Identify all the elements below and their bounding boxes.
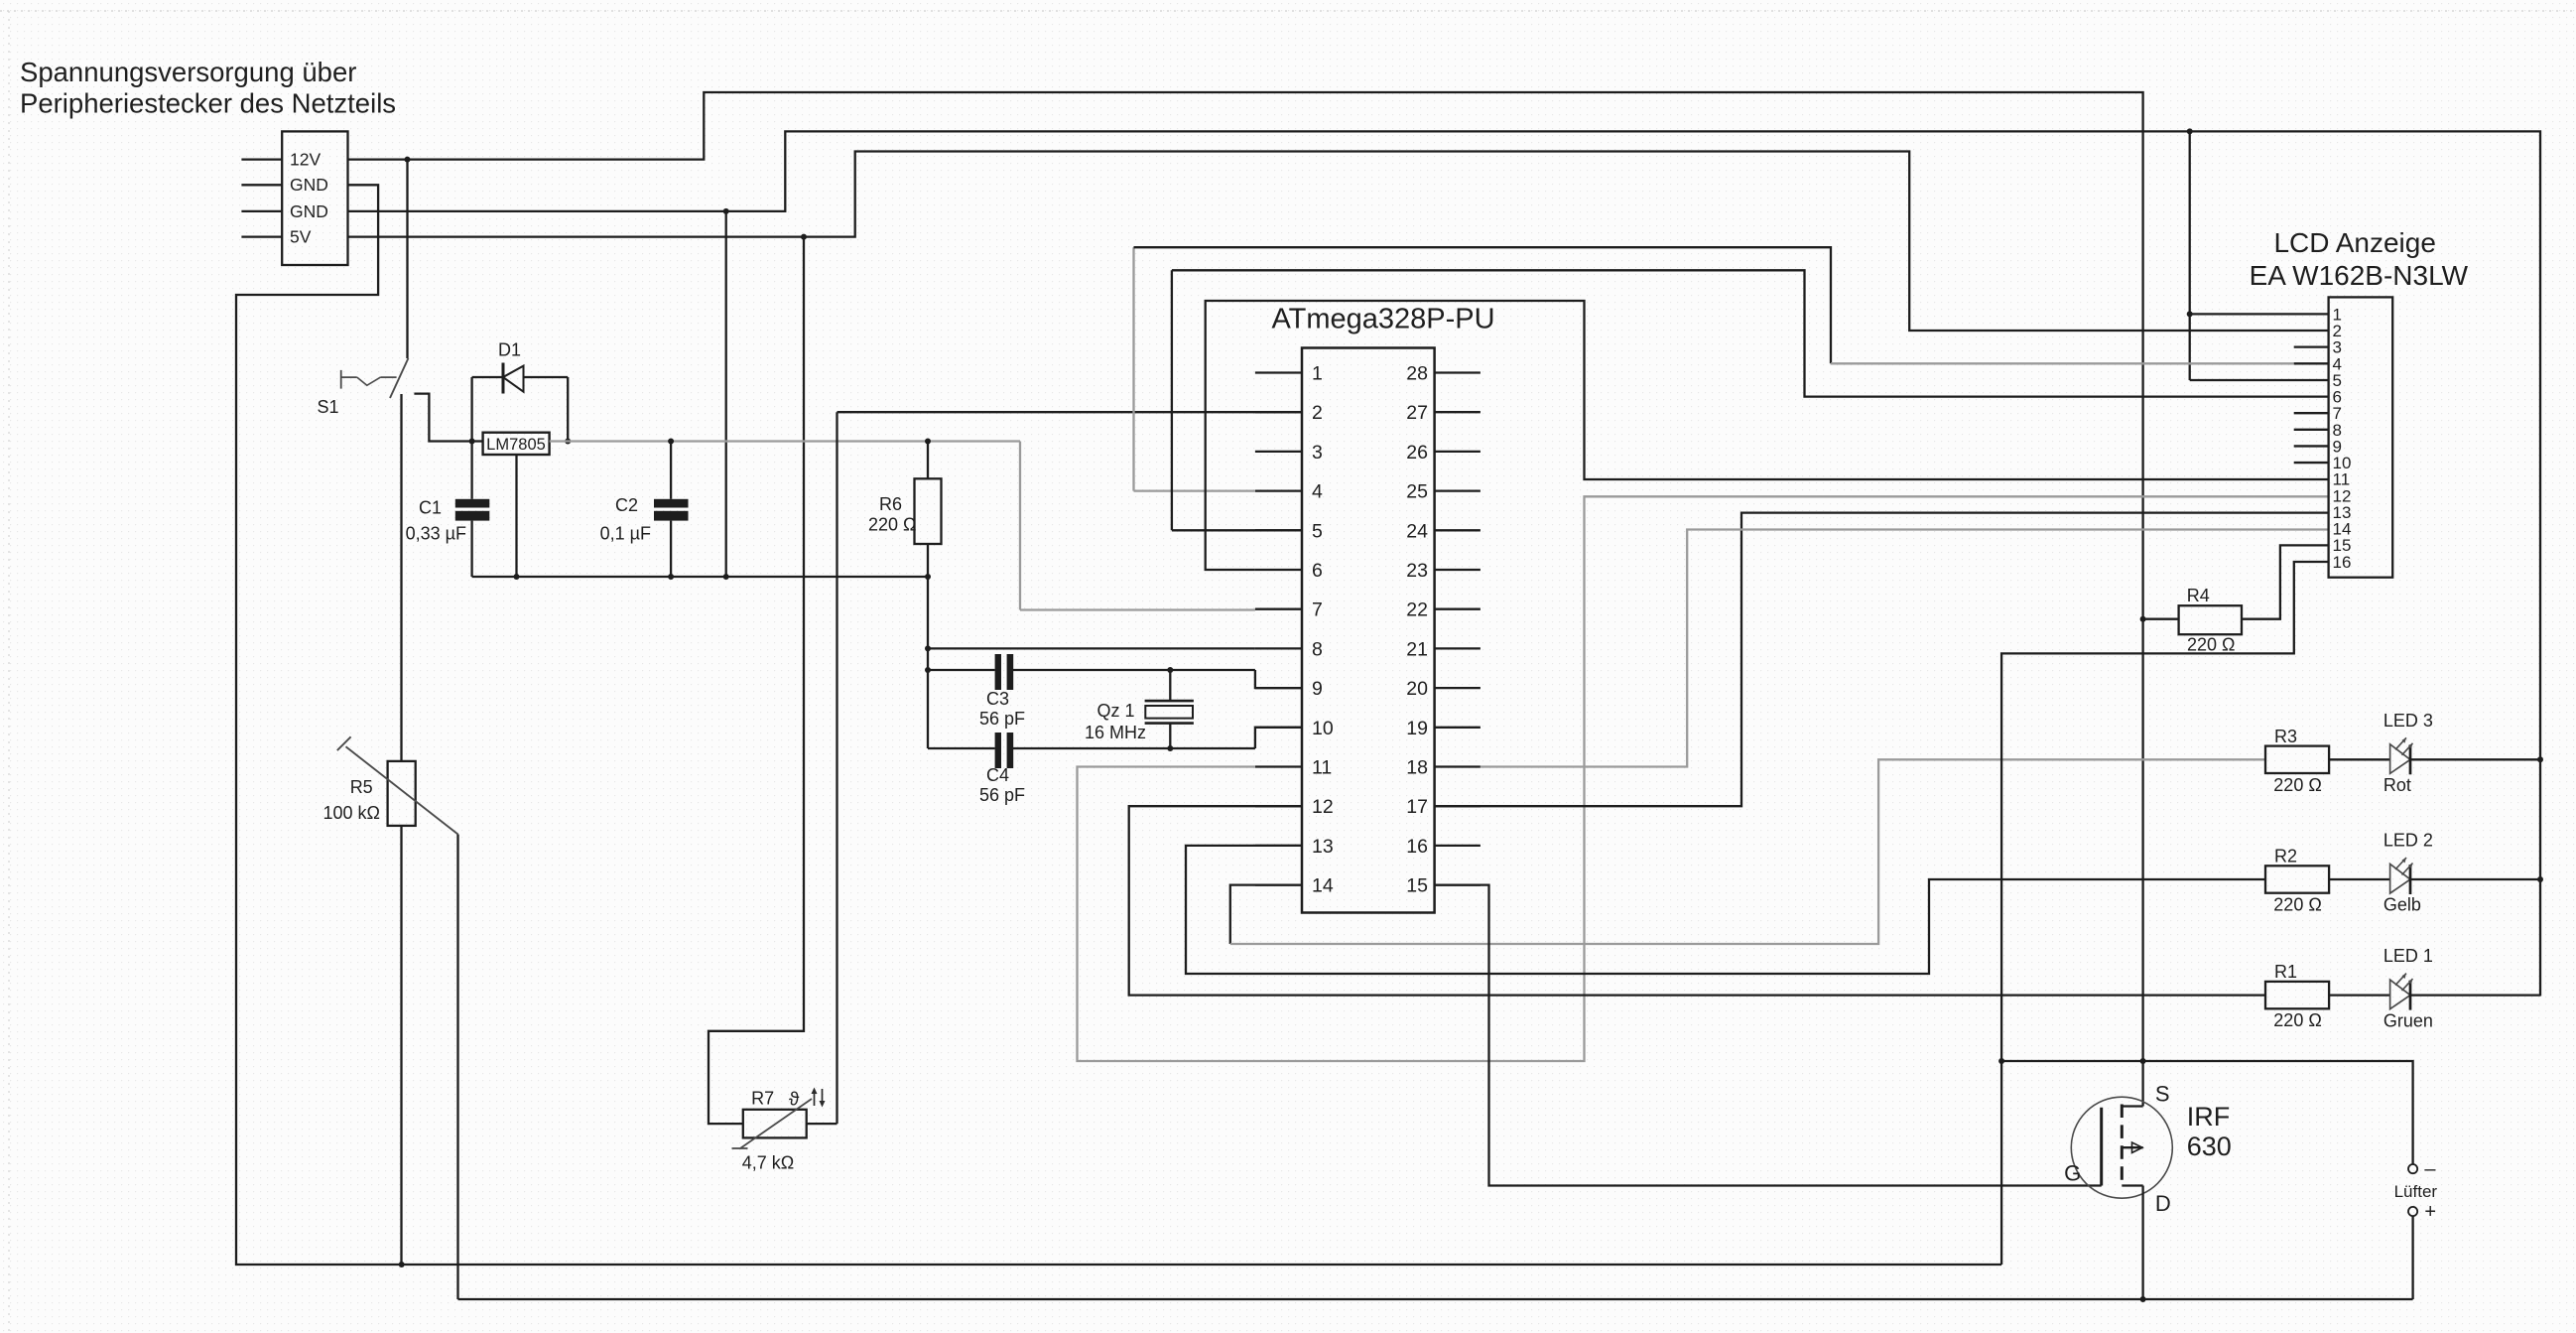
switch S1 actuator notch [357, 377, 381, 385]
wire GND1 from connector down-left-down to bottom rail [236, 185, 2001, 1265]
svg-text:16: 16 [1406, 836, 1428, 858]
svg-text:13: 13 [1312, 836, 1334, 858]
svg-text:220 Ω: 220 Ω [2273, 1010, 2322, 1030]
pin 6 stub [1255, 569, 1302, 571]
wire gray into ATmega pin 4 [1134, 489, 1255, 491]
svg-text:IRF: IRF [2187, 1102, 2231, 1132]
wire pin14 gray run to LED3 row [1230, 759, 2265, 944]
svg-text:56 pF: 56 pF [979, 709, 1025, 729]
svg-text:5: 5 [1312, 520, 1323, 542]
svg-text:ATmega328P-PU: ATmega328P-PU [1271, 304, 1494, 335]
wire pin5 net top run to LCD pin6 [1172, 270, 2329, 396]
svg-text:5V: 5V [290, 227, 312, 247]
capacitor C4 plates [995, 733, 1001, 768]
svg-text:Qz 1: Qz 1 [1097, 701, 1135, 721]
node R6 top on 5V line [925, 439, 931, 445]
wire D1 left vertical [470, 377, 472, 442]
svg-text:19: 19 [1406, 718, 1428, 739]
capacitor C2 bottom lead [670, 521, 672, 577]
node 12V switch tap [405, 157, 411, 163]
wire LM7805 gnd pin [515, 455, 517, 577]
wire pin10 jog [1255, 728, 1302, 748]
svg-text:G: G [2064, 1161, 2081, 1186]
svg-text:R1: R1 [2274, 962, 2297, 982]
wire to LCD pin 5 [2190, 379, 2329, 381]
wire GND1 left stub [241, 184, 282, 186]
node drain on bottom rail [2140, 1296, 2146, 1302]
pin 3 stub [1255, 451, 1302, 453]
svg-text:EA W162B-N3LW: EA W162B-N3LW [2250, 260, 2469, 291]
diode D1 cathode bar [502, 363, 505, 394]
pin 8 stub [1255, 647, 1302, 649]
wire R2 to LED [2329, 878, 2390, 880]
pin 12 stub [1255, 805, 1302, 807]
svg-text:56 pF: 56 pF [979, 785, 1025, 805]
svg-text:LED 3: LED 3 [2383, 711, 2433, 731]
svg-text:2: 2 [1312, 402, 1323, 424]
svg-text:14: 14 [1312, 875, 1334, 897]
svg-text:3: 3 [1312, 442, 1323, 464]
svg-text:17: 17 [1406, 796, 1428, 818]
resistor R6 bottom lead [927, 544, 929, 748]
svg-text:15: 15 [1406, 875, 1428, 897]
wire GND2 drop to cap rail [725, 211, 727, 577]
resistor R4 box [2179, 605, 2242, 634]
pin 11 stub [1255, 765, 1302, 767]
wire R7/thermistor net to ATmega pin 2 [837, 411, 1303, 413]
node LCD branch junction [2187, 128, 2193, 134]
svg-text:9: 9 [1312, 678, 1323, 700]
wire LCD pin16 net down to MOSFET source rail [2001, 562, 2329, 1265]
wire LED 3 to cathode rail [2410, 758, 2540, 760]
wire pin2 net drop to R7 right [836, 412, 837, 1124]
resistor R2 box [2265, 866, 2329, 892]
svg-text:25: 25 [1406, 481, 1428, 503]
LCD pin 10 stub [2294, 462, 2329, 464]
svg-text:27: 27 [1406, 402, 1428, 424]
LCD connector box [2329, 297, 2393, 577]
LED 2 arrow 2 [2402, 864, 2413, 875]
wire 5V drop to R7 left [708, 237, 804, 1125]
pin 26 stub [1435, 451, 1481, 453]
wire ATmega pin12 to LED1 row [1129, 806, 2265, 995]
svg-text:4,7 kΩ: 4,7 kΩ [742, 1153, 794, 1173]
wire GND drop to LCD pins 1+5 [2189, 131, 2191, 380]
svg-text:R5: R5 [350, 777, 373, 797]
svg-text:16: 16 [2333, 553, 2352, 572]
svg-text:LED 1: LED 1 [2383, 946, 2433, 966]
svg-text:100 kΩ: 100 kΩ [323, 803, 381, 823]
regulator LM7805 box [483, 433, 550, 455]
wire R4 right to LCD pin 15 [2242, 545, 2329, 618]
resistor R6 box [915, 478, 942, 544]
svg-text:28: 28 [1406, 363, 1428, 385]
node GND2 meets cap rail [723, 574, 729, 580]
pin 2 stub [1255, 411, 1302, 413]
svg-text:8: 8 [1312, 638, 1323, 660]
LED 3 arrow 1 [2395, 737, 2406, 749]
svg-text:C3: C3 [986, 689, 1009, 709]
potentiometer R5 box [388, 761, 416, 826]
node C2 bottom on rail [668, 574, 674, 580]
node LED2 cathode rail [2537, 876, 2543, 882]
svg-text:6: 6 [1312, 560, 1323, 582]
wire C4 line right [1013, 747, 1255, 749]
pin 24 stub [1435, 529, 1481, 531]
svg-text:ϑ: ϑ [789, 1090, 800, 1111]
wire into ATmega pin 5 [1172, 529, 1302, 531]
pin 13 stub [1255, 845, 1302, 847]
capacitor C3 plates [995, 654, 1001, 690]
wire S1 to LM7805 input [414, 394, 471, 442]
wire pin4 net top run to LCD pin4 [1134, 247, 1832, 363]
svg-text:12V: 12V [290, 150, 321, 170]
LED 1 arrow 1 [2395, 974, 2406, 986]
svg-text:23: 23 [1406, 560, 1428, 582]
node rail end at R6 [925, 574, 931, 580]
svg-text:10: 10 [1312, 718, 1334, 739]
pin 23 stub [1435, 569, 1481, 571]
svg-text:–: – [2424, 1158, 2436, 1180]
wire LCD pin4 stub [2294, 362, 2329, 364]
wire Lüfter plus down to rail [2411, 1216, 2413, 1299]
svg-text:S1: S1 [318, 397, 339, 417]
switch S1 blade [390, 358, 408, 398]
LED 3 triangle [2390, 744, 2410, 774]
Q1 body stub with arrow [2122, 1146, 2142, 1148]
wire LM7805 output 5V gray [550, 440, 1020, 442]
wire D1 right vertical [567, 377, 569, 442]
svg-text:D1: D1 [498, 340, 521, 360]
wire S1 output to R5 [400, 394, 402, 761]
svg-text:R7: R7 [751, 1089, 774, 1109]
R7 arrow up [814, 1090, 816, 1106]
pin 1 stub [1255, 371, 1302, 373]
pin 21 stub [1435, 647, 1481, 649]
LED 1 cathode bar [2409, 981, 2412, 1010]
wire ATmega pin6 loop over chip to LCD pin 11 [1206, 301, 2329, 570]
crystal Qz1 body [1145, 706, 1193, 719]
node R6 C3 branch [925, 667, 931, 673]
svg-text:C2: C2 [615, 495, 638, 515]
LCD pin 9 stub [2294, 445, 2329, 447]
switch S1 actuator bar left [341, 376, 357, 378]
wire 12V drop to switch S1 [406, 160, 408, 358]
svg-text:220 Ω: 220 Ω [2273, 895, 2322, 915]
pin 14 stub [1255, 883, 1302, 885]
LED 2 triangle [2390, 865, 2410, 894]
node LM7805 gnd on rail [514, 574, 520, 580]
capacitor C1 plates [455, 499, 490, 508]
terminal Lüfter minus circle [2408, 1164, 2417, 1173]
node D1 left junction [469, 439, 475, 445]
wire D1 anode segment [472, 376, 503, 378]
wire ATmega pin18 gray to LCD pin 14 [1481, 530, 2329, 767]
wire Lüfter minus line [2001, 1061, 2413, 1164]
LED 3 cathode bar [2409, 744, 2412, 774]
pin 25 stub [1435, 489, 1481, 491]
svg-text:D: D [2155, 1191, 2171, 1216]
node C2 top [668, 439, 674, 445]
switch S1 actuator bar right [380, 376, 396, 378]
wire pin4 net gray into LCD pin 4 [1831, 362, 2294, 364]
svg-text:24: 24 [1406, 520, 1428, 542]
svg-text:C1: C1 [419, 498, 442, 518]
capacitor C2 plates [654, 499, 689, 508]
Q1 source stub [2122, 1105, 2142, 1107]
resistor R1 box [2265, 982, 2329, 1008]
R7 right lead [807, 1123, 837, 1125]
switch S1 actuator tick [340, 370, 342, 389]
transistor Q1 IRF630 circle [2071, 1097, 2172, 1198]
LED 1 arrow 2 [2402, 979, 2413, 991]
Q1 gate bar [2100, 1108, 2103, 1186]
wire R4 left [2143, 618, 2179, 620]
R5 wiper arrow diagonal [346, 746, 458, 834]
wire pin9 jog [1255, 670, 1302, 688]
wire 12V to junction and riser [348, 92, 2143, 1107]
wire bottom drain rail [458, 1298, 2413, 1300]
pin 28 stub [1435, 371, 1481, 373]
svg-text:R3: R3 [2274, 727, 2297, 746]
pin 17 stub [1435, 805, 1481, 807]
svg-text:Spannungsversorgung über: Spannungsversorgung über [20, 57, 356, 87]
svg-text:Peripheriestecker des Netzteil: Peripheriestecker des Netzteils [20, 88, 396, 119]
wire to LCD pin 1 [2190, 313, 2329, 315]
pin 27 stub [1435, 411, 1481, 413]
node crystal top [1167, 667, 1173, 673]
svg-text:LED 2: LED 2 [2383, 831, 2433, 851]
wire ATmega pin17 to LCD pin 13 [1435, 513, 2329, 807]
R7 arrow down [822, 1089, 824, 1105]
R5 wiper lead [456, 835, 458, 1300]
crystal Qz1 top lead [1169, 670, 1171, 701]
svg-text:26: 26 [1406, 442, 1428, 464]
R5 wiper tail tick [337, 736, 351, 750]
pin 16 stub [1435, 845, 1481, 847]
LCD pin 7 stub [2294, 412, 2329, 414]
capacitor C1 bottom lead [470, 521, 472, 577]
node LED3 cathode rail [2537, 756, 2543, 762]
node R4 left junction [2140, 616, 2146, 622]
wire drain down to rail [2141, 1186, 2143, 1300]
LED 1 triangle [2390, 980, 2410, 1009]
power connector J1 box [282, 131, 347, 265]
svg-text:0,1 µF: 0,1 µF [600, 524, 651, 544]
svg-text:4: 4 [1312, 481, 1323, 503]
wire ATmega pin13 to LED2 row [1186, 846, 2265, 974]
resistor R3 box [2265, 746, 2329, 773]
node R6 pin8 branch [925, 645, 931, 651]
wire 12V left stub [241, 158, 282, 160]
svg-text:630: 630 [2187, 1132, 2232, 1161]
svg-text:22: 22 [1406, 600, 1428, 621]
wire ATmega pin11 gray net to LCD pin 12 [1078, 496, 2329, 1061]
svg-text:220 Ω: 220 Ω [868, 515, 917, 535]
svg-text:12: 12 [1312, 796, 1334, 818]
pin 18 stub [1435, 765, 1481, 767]
LED 2 arrow 1 [2395, 858, 2406, 869]
IC ATmega328P-PU body [1302, 348, 1435, 913]
wire 5V from connector to riser x861 [348, 152, 2329, 332]
pin 7 stub [1255, 608, 1302, 610]
LED 2 cathode bar [2409, 865, 2412, 894]
svg-text:GND: GND [290, 175, 328, 195]
node GND2 drop junction [723, 208, 729, 214]
node 5V R7 branch [801, 234, 807, 240]
diode D1 triangle [503, 366, 524, 392]
svg-text:LCD Anzeige: LCD Anzeige [2273, 227, 2435, 258]
pin 15 stub [1435, 883, 1481, 885]
wire LED 1 to cathode rail [2410, 994, 2540, 996]
pin 4 stub [1255, 489, 1302, 491]
LED 3 arrow 2 [2402, 743, 2413, 755]
R5 bottom lead [400, 826, 402, 1265]
wire ATmega pin5 riser [1171, 270, 1173, 530]
pin 19 stub [1435, 727, 1481, 729]
svg-text:Gruen: Gruen [2383, 1010, 2433, 1030]
wire LED 2 to cathode rail [2410, 878, 2540, 880]
svg-text:R6: R6 [879, 494, 902, 514]
svg-text:20: 20 [1406, 678, 1428, 700]
scan edge artifact top [0, 10, 2576, 12]
svg-text:Lüfter: Lüfter [2394, 1182, 2438, 1201]
wire C3 line left [928, 669, 995, 671]
svg-text:Gelb: Gelb [2383, 895, 2421, 915]
terminal Lüfter plus circle [2408, 1207, 2417, 1216]
crystal Qz1 top plate [1145, 700, 1194, 703]
wire GND2 left stub [241, 210, 282, 212]
capacitor C1 top lead [470, 442, 472, 499]
capacitor C2 top lead [670, 442, 672, 499]
svg-text:+: + [2424, 1201, 2436, 1223]
svg-text:18: 18 [1406, 757, 1428, 779]
svg-text:220 Ω: 220 Ω [2273, 775, 2322, 795]
R7 diagonal [740, 1099, 812, 1148]
wire ATmega pin4 net gray riser [1132, 247, 1134, 490]
pin 10 stub [1255, 727, 1302, 729]
svg-text:11: 11 [1312, 757, 1332, 779]
svg-text:220 Ω: 220 Ω [2187, 635, 2236, 655]
wire to ATmega pin 8 [928, 647, 1255, 649]
R7 diagonal foot tick [732, 1147, 748, 1149]
svg-text:LM7805: LM7805 [486, 436, 546, 454]
wire ATmega pin15 to MOSFET gate [1435, 885, 2102, 1186]
svg-text:C4: C4 [986, 765, 1009, 785]
resistor R6 top lead [927, 442, 929, 479]
wire ATmega pin14 jog [1230, 885, 1302, 944]
wire gray down to pin7 level [1019, 442, 1021, 610]
svg-text:R2: R2 [2274, 847, 2297, 866]
svg-text:GND: GND [290, 201, 328, 221]
wire LM7805 input [472, 440, 483, 442]
wire R1 to LED [2329, 994, 2390, 996]
Q1 channel dashed bar [2121, 1105, 2124, 1188]
wire R3 to LED [2329, 758, 2390, 760]
node S vertical crossing [2140, 1058, 2146, 1064]
svg-text:21: 21 [1406, 638, 1428, 660]
wire C3 line right [1013, 669, 1255, 671]
node source-net Lüfter branch [1998, 1058, 2004, 1064]
svg-text:1: 1 [1312, 363, 1323, 385]
svg-text:S: S [2155, 1081, 2170, 1106]
Q1 drain stub [2122, 1184, 2142, 1186]
node crystal bottom [1167, 745, 1173, 751]
node R5 bottom on GND rail [399, 1262, 405, 1267]
crystal Qz1 bottom lead [1169, 724, 1171, 748]
pin 22 stub [1435, 608, 1481, 610]
svg-text:Rot: Rot [2383, 775, 2411, 795]
wire GND2 from connector to riser x791 [348, 131, 2541, 996]
node D1 right junction [565, 439, 571, 445]
svg-text:0,33 µF: 0,33 µF [406, 524, 466, 544]
wire gray to ATmega pin 7 [1020, 608, 1255, 610]
svg-text:16 MHz: 16 MHz [1085, 723, 1146, 742]
wire cap ground rail [472, 576, 928, 578]
pin 9 stub [1255, 687, 1302, 689]
pin 20 stub [1435, 687, 1481, 689]
wire D1 right segment [524, 376, 569, 378]
wire 5V left stub [241, 235, 282, 237]
node LCD pin1 tap [2187, 311, 2193, 317]
LCD pin 3 stub [2294, 346, 2329, 348]
LCD pin 8 stub [2294, 429, 2329, 431]
crystal Qz1 bottom plate [1145, 722, 1194, 725]
scan edge artifact left [8, 11, 10, 1333]
wire C4 line left [928, 747, 995, 749]
svg-text:R4: R4 [2187, 586, 2210, 605]
thermistor R7 box [743, 1110, 807, 1138]
svg-text:7: 7 [1312, 600, 1323, 621]
pin 5 stub [1255, 529, 1302, 531]
